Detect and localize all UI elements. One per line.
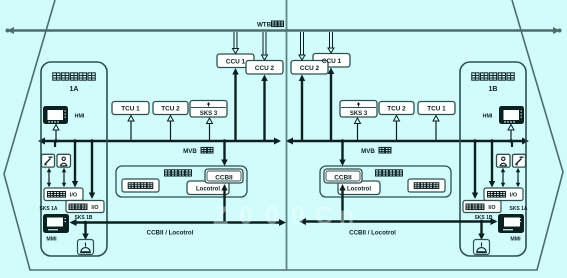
svg-text:SKS 1B: SKS 1B <box>474 215 492 221</box>
svg-text:CCU 2: CCU 2 <box>300 65 320 72</box>
svg-text:I/O: I/O <box>510 193 517 199</box>
svg-text:CCU 2: CCU 2 <box>255 65 275 72</box>
svg-text:I/O: I/O <box>70 193 77 199</box>
svg-text:CCU 1: CCU 1 <box>322 58 342 65</box>
svg-text:C: C <box>315 202 333 230</box>
svg-text:1A: 1A <box>70 86 79 93</box>
svg-text:MMI: MMI <box>46 237 57 243</box>
svg-text:I/O: I/O <box>91 205 98 211</box>
svg-text:0: 0 <box>239 202 253 230</box>
svg-text:MVB: MVB <box>361 148 375 155</box>
svg-text:MMI: MMI <box>510 237 521 243</box>
svg-text:MVB: MVB <box>183 148 197 155</box>
svg-text:HMI: HMI <box>75 114 85 120</box>
svg-text:Locotrol: Locotrol <box>196 187 220 193</box>
svg-text:0: 0 <box>291 202 305 230</box>
svg-text:n: n <box>339 202 354 230</box>
svg-text:1B: 1B <box>489 86 498 93</box>
svg-text:CCBII: CCBII <box>334 174 352 181</box>
svg-text:SKS 1A: SKS 1A <box>39 206 57 212</box>
svg-text:SKS 1B: SKS 1B <box>74 215 92 221</box>
svg-text:SKS 3: SKS 3 <box>200 111 218 117</box>
svg-text:SKS 3: SKS 3 <box>350 111 368 117</box>
svg-text:TCU 1: TCU 1 <box>427 105 446 112</box>
svg-text:0: 0 <box>265 202 279 230</box>
svg-text:Locotrol: Locotrol <box>347 187 371 193</box>
svg-text:TCU 2: TCU 2 <box>161 105 180 112</box>
svg-text:CCBII / Locotrol: CCBII / Locotrol <box>349 229 396 236</box>
svg-text:CCU 1: CCU 1 <box>226 58 246 65</box>
svg-text:TCU 1: TCU 1 <box>121 105 140 112</box>
svg-text:CCBII: CCBII <box>215 174 233 181</box>
svg-text:I/O: I/O <box>488 205 495 211</box>
svg-text:TCU 2: TCU 2 <box>387 105 406 112</box>
svg-text:CCBII / Locotrol: CCBII / Locotrol <box>147 229 194 236</box>
svg-text:WTB: WTB <box>257 22 272 29</box>
svg-text:Z: Z <box>213 202 228 230</box>
svg-text:SKS 1A: SKS 1A <box>509 206 527 212</box>
svg-text:HMI: HMI <box>483 114 493 120</box>
